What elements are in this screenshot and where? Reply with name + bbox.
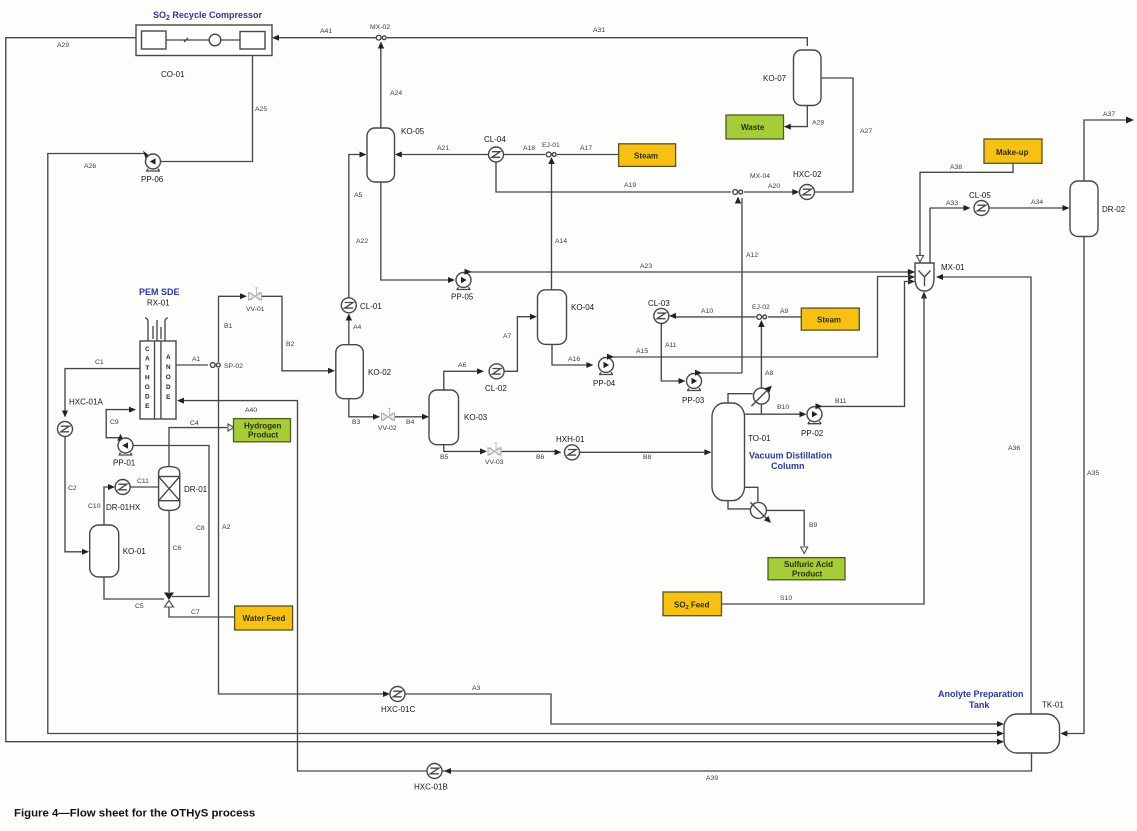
wire A33 MX-01 to CL-05 [930, 208, 966, 263]
svg-text:A5: A5 [354, 192, 363, 199]
svg-text:Make-up: Make-up [996, 148, 1029, 157]
wire A26 PP-06 to TK-01 [48, 154, 1000, 734]
svg-text:A26: A26 [84, 163, 96, 170]
wire A21 CL-04 to KO-05 [400, 154, 488, 156]
svg-text:Column: Column [771, 461, 805, 471]
svg-text:SO2 Feed: SO2 Feed [674, 601, 710, 612]
vessel KO-02 [336, 345, 364, 399]
wire C1 RX-01 to HXC-01A [65, 369, 140, 413]
wire A3 HXC-01C to TK-01 [405, 694, 1000, 724]
wire B8 HXH-01 to TO-01 [580, 451, 707, 453]
svg-text:B1: B1 [224, 323, 233, 330]
svg-text:A35: A35 [1087, 470, 1099, 477]
svg-text:Product: Product [792, 570, 823, 579]
svg-text:HXC-01B: HXC-01B [414, 783, 448, 792]
svg-text:A22: A22 [356, 238, 368, 245]
svg-text:A2: A2 [222, 524, 231, 531]
wire PP-03 discharge to A12 [697, 373, 743, 375]
heat exchanger HXC-01B [427, 764, 442, 779]
wire B9 reboiler to Sulfuric Acid Product [766, 510, 804, 546]
svg-text:HXC-01C: HXC-01C [381, 705, 415, 714]
svg-text:A29: A29 [57, 42, 69, 49]
svg-text:Steam: Steam [817, 316, 841, 325]
svg-text:C6: C6 [173, 545, 182, 552]
svg-text:CL-03: CL-03 [648, 299, 670, 308]
svg-text:A8: A8 [765, 370, 774, 377]
svg-text:B9: B9 [809, 522, 818, 529]
vessel KO-04 [538, 290, 567, 345]
svg-text:C7: C7 [191, 609, 200, 616]
wire B3 KO-02 to VV-02 [349, 399, 375, 417]
svg-text:EJ-01: EJ-01 [542, 142, 560, 149]
wire A27 HXC-02 to KO-07 [815, 78, 853, 192]
wire A16 KO-04 to EJ-01 [551, 160, 553, 290]
svg-text:Waste: Waste [741, 123, 765, 132]
svg-text:A23: A23 [640, 263, 652, 270]
svg-text:CL-05: CL-05 [969, 191, 991, 200]
svg-text:Water Feed: Water Feed [243, 614, 286, 623]
wire A10 EJ-02 to CL-03 [673, 316, 756, 318]
svg-text:A14: A14 [555, 238, 567, 245]
wire B1 SP-02 to VV-01 [219, 296, 243, 362]
wire A15 PP-04 to MX-01 [609, 277, 912, 359]
svg-text:A38: A38 [950, 164, 962, 171]
svg-text:A33: A33 [946, 200, 958, 207]
wire C8 PP-01 suction [133, 446, 209, 597]
svg-text:PP-01: PP-01 [113, 459, 136, 468]
wire A29 compressor to left edge and down to TK-01 [6, 38, 1000, 742]
svg-text:A37: A37 [1103, 111, 1115, 118]
svg-text:KO-02: KO-02 [368, 368, 392, 377]
svg-text:A21: A21 [437, 145, 449, 152]
box Make-up [984, 139, 1042, 163]
svg-text:E: E [166, 394, 171, 401]
svg-text:O: O [166, 374, 171, 381]
svg-text:C4: C4 [190, 420, 199, 427]
valve VV-01 [249, 288, 262, 301]
wire A8 condenser to EJ-02 [760, 322, 762, 388]
svg-text:Product: Product [248, 431, 279, 440]
wire A39 TK-01 to RX-01 anode [442, 753, 1032, 771]
box SO2 Feed [663, 592, 722, 616]
svg-text:C5: C5 [135, 603, 144, 610]
svg-text:EJ-02: EJ-02 [752, 304, 770, 311]
svg-text:H: H [145, 375, 150, 382]
wire A24 KO-05 to MX-02 [380, 46, 382, 128]
wire A37 DR-02 to top right [1084, 120, 1129, 181]
wire B4 VV-02 to KO-03 [395, 416, 424, 418]
node EJ-01 [546, 152, 556, 157]
svg-text:B10: B10 [777, 404, 789, 411]
svg-text:A19: A19 [624, 182, 636, 189]
svg-text:C11: C11 [137, 478, 149, 485]
wire B6 VV-03 to HXH-01 [502, 450, 558, 452]
svg-text:S10: S10 [780, 595, 792, 602]
dryer DR-01 [159, 467, 180, 511]
pump PP-03 [687, 374, 702, 391]
wire B2 VV-01 to KO-02 [262, 296, 330, 371]
box Steam 2 [801, 308, 859, 330]
wire C10 KO-01 to DR-01HX [104, 487, 110, 525]
svg-text:B3: B3 [352, 419, 361, 426]
svg-text:C8: C8 [196, 525, 205, 532]
svg-text:A36: A36 [1008, 445, 1020, 452]
wire C5 KO-01 to junction [104, 577, 164, 599]
pump PP-01 [118, 438, 133, 455]
wire C2 HXC-01A to KO-01 [65, 437, 84, 552]
heat exchanger HXH-01 [565, 445, 580, 460]
wire A38 Make-up to MX-01 [920, 163, 1013, 255]
svg-text:T: T [145, 365, 149, 372]
wire A9 Steam to EJ-02 [768, 316, 801, 318]
svg-text:CL-02: CL-02 [485, 384, 507, 393]
svg-text:D: D [145, 394, 150, 401]
svg-text:A27: A27 [860, 128, 872, 135]
wire A20 MX-04 to HXC-02 [744, 191, 795, 193]
wire A18 EJ-01 to CL-04 [504, 154, 545, 156]
svg-text:A25: A25 [255, 106, 267, 113]
svg-text:PEM SDE: PEM SDE [139, 287, 180, 297]
svg-text:D: D [166, 384, 171, 391]
pump PP-02 [807, 407, 822, 424]
electrolyser RX-01 [145, 318, 168, 341]
svg-text:A6: A6 [458, 362, 467, 369]
svg-text:A34: A34 [1031, 199, 1043, 206]
heat exchanger CL-02 [489, 364, 504, 379]
svg-text:A: A [166, 354, 171, 361]
svg-text:Anolyte Preparation: Anolyte Preparation [938, 689, 1024, 699]
wire A28 KO-07 to Waste [788, 106, 807, 127]
svg-text:DR-01: DR-01 [184, 485, 208, 494]
svg-text:B5: B5 [440, 454, 449, 461]
svg-text:KO-04: KO-04 [571, 303, 595, 312]
wire A19 MX-04 to CL-04 bottom [496, 162, 731, 192]
svg-text:TK-01: TK-01 [1042, 701, 1064, 710]
wire A11 CL-03 to PP-03 [661, 323, 681, 381]
svg-text:C2: C2 [68, 485, 77, 492]
svg-text:CL-01: CL-01 [360, 302, 382, 311]
compressor CO-01 [136, 25, 272, 56]
svg-text:PP-03: PP-03 [682, 396, 705, 405]
svg-text:A31: A31 [593, 27, 605, 34]
svg-text:A24: A24 [390, 90, 402, 97]
wire A35 DR-02 to TK-01 [1064, 237, 1084, 734]
svg-text:A12: A12 [746, 252, 758, 259]
vessel KO-03 [429, 390, 459, 445]
wire A4 KO-02 to CL-01 [348, 317, 350, 345]
wire A34 CL-05 to DR-02 [989, 207, 1065, 209]
wire B11 PP-02 to MX-01 [817, 282, 911, 408]
wire A17 Steam to EJ-01 [557, 154, 619, 156]
svg-text:A41: A41 [320, 28, 332, 35]
node MX-04 [733, 190, 743, 195]
vessel KO-07 [794, 50, 822, 106]
wire A31 KO-07 to MX-02 [387, 38, 807, 46]
column TO-01 [712, 403, 745, 501]
wire C11 DR-01HX to DR-01 [130, 486, 158, 488]
node SP-02 [210, 363, 220, 368]
svg-text:TO-01: TO-01 [748, 434, 771, 443]
pump PP-04 [599, 358, 614, 375]
svg-text:E: E [145, 403, 150, 410]
svg-text:N: N [166, 364, 171, 371]
svg-text:DR-02: DR-02 [1102, 205, 1126, 214]
svg-text:A4: A4 [353, 324, 362, 331]
box Steam 1 [619, 144, 676, 167]
heat exchanger CL-01 [341, 298, 356, 313]
svg-text:KO-01: KO-01 [123, 547, 147, 556]
svg-text:PP-02: PP-02 [801, 429, 824, 438]
heat exchanger DR-01HX [115, 480, 130, 495]
svg-text:C9: C9 [110, 419, 119, 426]
svg-text:RX-01: RX-01 [147, 299, 170, 308]
svg-text:A10: A10 [701, 308, 713, 315]
svg-text:C1: C1 [95, 359, 104, 366]
svg-text:Sulfuric Acid: Sulfuric Acid [784, 560, 833, 569]
svg-text:A: A [145, 356, 150, 363]
heat exchanger CL-05 [974, 201, 989, 216]
tank TK-01 [1004, 714, 1060, 753]
svg-text:A11: A11 [665, 342, 677, 349]
svg-text:A17: A17 [580, 145, 592, 152]
svg-text:A28: A28 [812, 120, 824, 127]
heat exchanger CL-04 [489, 147, 504, 162]
svg-text:A15: A15 [636, 348, 648, 355]
wire S10 SO2 Feed to MX-01 [722, 296, 925, 604]
svg-text:PP-04: PP-04 [593, 379, 616, 388]
svg-text:HXC-01A: HXC-01A [69, 398, 103, 407]
svg-text:DR-01HX: DR-01HX [106, 503, 141, 512]
svg-text:CO-01: CO-01 [161, 70, 185, 79]
svg-text:A1: A1 [192, 356, 201, 363]
svg-text:VV-01: VV-01 [246, 306, 265, 313]
svg-text:C: C [145, 346, 150, 353]
svg-text:Vacuum Distillation: Vacuum Distillation [749, 451, 832, 461]
wire B10 TO-01 to PP-02 [745, 405, 803, 415]
svg-text:PP-06: PP-06 [141, 175, 164, 184]
svg-text:C10: C10 [88, 503, 101, 510]
wire A36 TK-01 to MX-01 [940, 277, 1031, 714]
wire A7 CL-02 to KO-04 [504, 317, 532, 372]
svg-text:A40: A40 [245, 407, 257, 414]
wire A41 MX-02 to compressor [276, 37, 378, 39]
box Hydrogen Product [234, 419, 291, 442]
svg-text:A39: A39 [706, 775, 718, 782]
node EJ-02 [757, 315, 767, 320]
svg-text:B2: B2 [286, 341, 295, 348]
svg-text:Tank: Tank [969, 700, 990, 710]
svg-text:B4: B4 [406, 419, 415, 426]
wire A23 PP-05 to MX-01 [466, 272, 910, 274]
wire C9 PP-01 to RX-01 [106, 410, 131, 440]
arrows into MX-01 left [908, 269, 915, 275]
wire C6 DR-01 to junction [168, 511, 170, 593]
svg-text:A9: A9 [780, 308, 789, 315]
wire A16 KO-04 to PP-04 [552, 344, 588, 365]
svg-text:B11: B11 [835, 398, 847, 405]
svg-text:A7: A7 [503, 333, 512, 340]
svg-text:MX-02: MX-02 [370, 24, 390, 31]
wire B5 KO-03 to VV-03 [444, 445, 482, 452]
wire A1 RX-01 to SP-02 [176, 364, 208, 366]
svg-text:Hydrogen: Hydrogen [244, 422, 281, 431]
svg-text:B8: B8 [643, 454, 652, 461]
wire A6 KO-03 to CL-02 [444, 371, 479, 390]
mixer MX-01 [915, 263, 934, 291]
wire C4 DR-01 to Hydrogen Product [169, 428, 227, 467]
svg-text:PP-05: PP-05 [451, 293, 474, 302]
wire S10 into MX-01 bottom [921, 292, 927, 299]
svg-text:VV-02: VV-02 [378, 425, 397, 432]
wire A5 CL-01 to KO-05 [349, 155, 361, 299]
svg-text:A3: A3 [472, 685, 481, 692]
box Sulfuric Acid Product [768, 558, 845, 580]
box Water Feed [235, 606, 293, 630]
svg-text:HXH-01: HXH-01 [556, 435, 585, 444]
wire A22 KO-05 to PP-05 [381, 182, 450, 280]
junction valve C5/C6/C7 [164, 593, 174, 601]
vessel KO-05 [367, 128, 395, 182]
svg-text:A16: A16 [568, 356, 580, 363]
svg-text:A18: A18 [523, 145, 535, 152]
svg-text:HXC-02: HXC-02 [793, 170, 822, 179]
wire A25 compressor to PP-06 [161, 56, 253, 162]
wire A2 SP-02 to HXC-01C [219, 368, 386, 694]
svg-text:KO-03: KO-03 [464, 413, 488, 422]
svg-text:A20: A20 [768, 183, 780, 190]
heat exchanger HXC-01A [58, 422, 73, 437]
node MX-02 [376, 35, 386, 40]
wire A2 arrow + heat exchanger HXC-01C [390, 687, 405, 702]
valve VV-02 [382, 408, 395, 421]
svg-text:B6: B6 [536, 454, 545, 461]
svg-text:Steam: Steam [634, 152, 658, 161]
heat exchanger CL-03 [654, 308, 669, 323]
svg-text:CL-04: CL-04 [484, 135, 506, 144]
wire A12 PP-03 to MX-04 [741, 198, 743, 373]
wire C7 Water Feed to junction [169, 607, 234, 617]
svg-text:KO-05: KO-05 [401, 127, 425, 136]
pump PP-05 [456, 273, 471, 290]
condenser at TO-01 top [728, 394, 753, 403]
svg-text:MX-01: MX-01 [941, 263, 965, 272]
box Waste [726, 115, 784, 139]
svg-text:Figure 4—Flow sheet for the OT: Figure 4—Flow sheet for the OTHyS proces… [14, 808, 255, 820]
svg-text:KO-07: KO-07 [763, 74, 787, 83]
svg-text:O: O [145, 384, 150, 391]
svg-text:MX-04: MX-04 [750, 173, 770, 180]
svg-text:SP-02: SP-02 [224, 363, 243, 370]
vessel KO-01 [90, 525, 119, 577]
vessel DR-02 [1070, 181, 1098, 237]
valve VV-03 [488, 443, 501, 456]
svg-text:VV-03: VV-03 [485, 459, 504, 466]
pump PP-06 [146, 154, 161, 171]
reboiler at TO-01 bottom [728, 487, 758, 509]
heat exchanger HXC-02 [800, 185, 815, 200]
